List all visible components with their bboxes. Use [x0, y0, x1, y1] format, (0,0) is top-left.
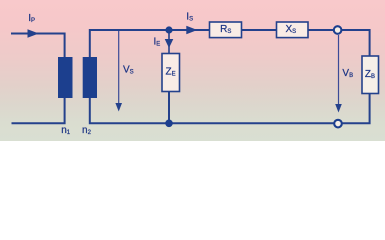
arrow Vs — [118, 31, 120, 104]
wire bottom rail — [90, 94, 370, 124]
arrowhead Ie — [165, 39, 174, 48]
impedance Ze — [162, 54, 180, 92]
wire primary bottom — [12, 98, 65, 123]
node junction top — [165, 26, 172, 33]
terminal bottom — [334, 120, 342, 128]
reactance Xs — [277, 22, 309, 38]
terminal top — [334, 26, 342, 34]
impedance Zb — [362, 56, 379, 94]
arrow Vb — [338, 35, 340, 105]
transformer winding n2 — [83, 57, 97, 98]
wire primary input — [11, 34, 65, 58]
wire Ze to bottom rail — [168, 92, 170, 124]
arrowhead Vs — [115, 103, 122, 112]
wire top rail — [90, 30, 370, 57]
node junction bottom — [165, 120, 173, 128]
arrowhead Is — [186, 26, 197, 34]
arrowhead Ip — [28, 29, 39, 38]
resistor Rs — [210, 22, 242, 38]
wire shunt branch — [168, 30, 170, 54]
transformer winding n1 — [58, 57, 73, 98]
arrowhead Vb — [335, 104, 342, 113]
